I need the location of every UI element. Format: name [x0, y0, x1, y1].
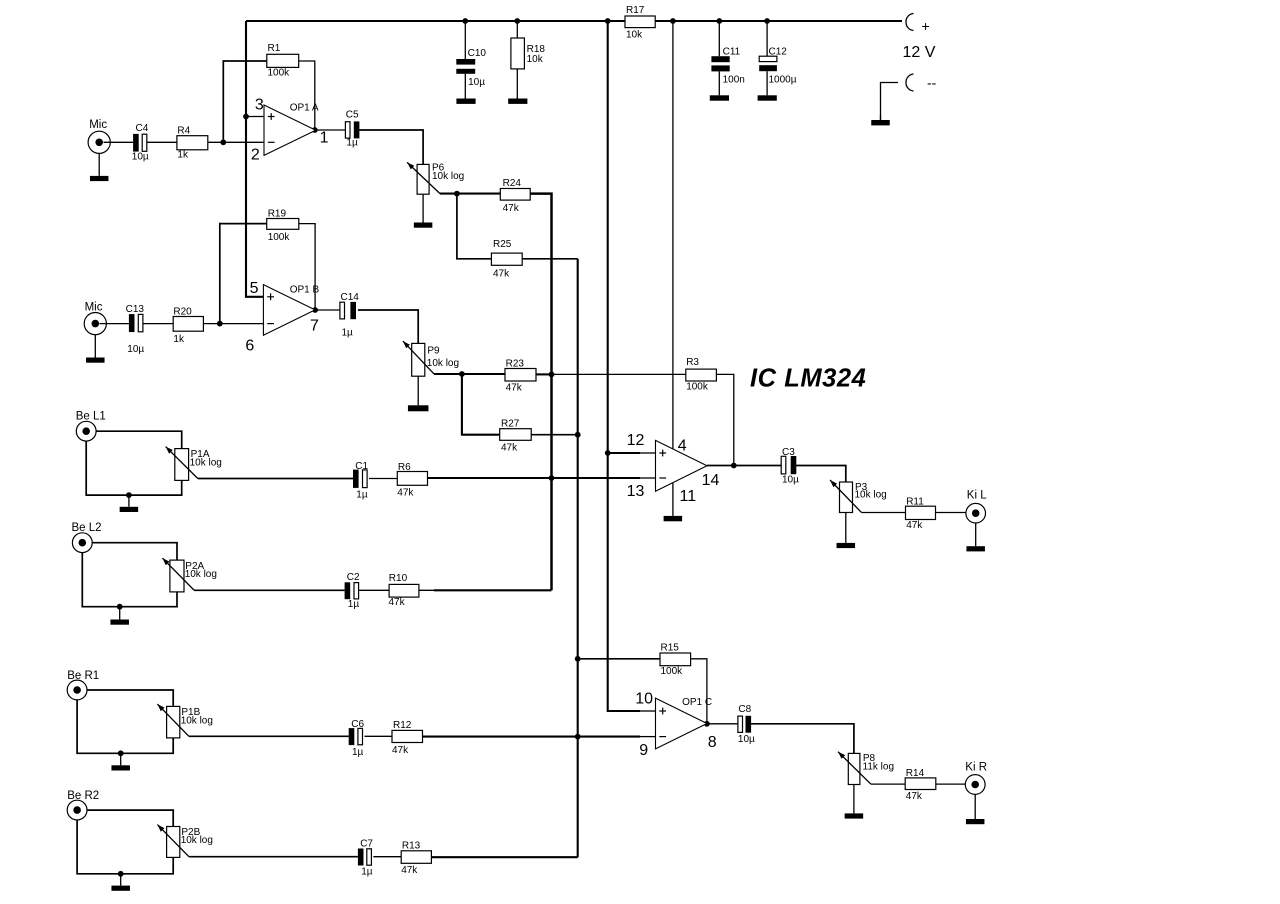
wire OP1 GND pin 11 to ground	[672, 483, 674, 516]
svg-text:C7: C7	[360, 838, 373, 849]
svg-text:R13: R13	[402, 840, 421, 851]
svg-text:C14: C14	[341, 292, 360, 303]
capacitor C2	[345, 572, 360, 610]
wire C8 to P8	[750, 724, 854, 754]
svg-text:R27: R27	[501, 418, 520, 429]
svg-text:12: 12	[627, 432, 645, 449]
wire R18 to ground	[516, 69, 518, 99]
op-amp U1C (OP1 C)	[656, 698, 708, 749]
junction left-mix bus/pin 13 wire	[549, 475, 555, 481]
ground (Be L1 loop)	[120, 495, 138, 512]
wire OP1 A output to C5	[316, 129, 346, 131]
connector Be R2	[67, 790, 99, 820]
wire C13 to R20	[143, 323, 173, 325]
resistor R4	[177, 125, 208, 160]
junction Be L2 loop/ground	[117, 604, 123, 610]
ground (Mic 1)	[90, 153, 109, 181]
svg-text:1µ: 1µ	[346, 138, 358, 149]
svg-text:1k: 1k	[173, 334, 185, 345]
ground (R18)	[508, 99, 527, 104]
wire pin 12 (+) of OP1 D	[608, 452, 640, 454]
ground (P6)	[414, 194, 433, 228]
junction P6 wiper / R24 / R25	[454, 191, 460, 197]
svg-text:47k: 47k	[401, 865, 418, 876]
svg-text:10k: 10k	[626, 29, 643, 40]
wire C5 to P6	[359, 130, 423, 164]
svg-text:C13: C13	[126, 304, 145, 315]
wire R12 to pin 9 (-) of OP1 C	[423, 736, 641, 738]
wire P6 wiper to summing junction	[440, 193, 457, 195]
wire OP1 D output to C3	[707, 465, 781, 467]
wire junction to R24	[457, 193, 500, 195]
potentiometer P3	[830, 480, 887, 513]
wire R14 to Ki R	[936, 783, 966, 785]
potentiometer P1A	[166, 447, 222, 481]
svg-text:12 V: 12 V	[903, 44, 936, 61]
junction R23/left-mix bus	[549, 372, 555, 378]
capacitor C5	[345, 110, 359, 149]
wire P8 wiper to R14	[871, 783, 905, 785]
svg-text:R14: R14	[906, 768, 925, 779]
wire R3 to OP1 D output	[716, 374, 733, 465]
svg-text:C10: C10	[468, 48, 487, 59]
wire C10 to ground	[464, 74, 466, 99]
junction OP1 C output/R15	[704, 721, 710, 727]
wire +12V/Vref top rail (left of R17)	[246, 20, 625, 22]
wire +12V top rail (right of R17)	[655, 20, 902, 22]
wire Be R2 to P2B top	[87, 810, 173, 826]
svg-text:10µ: 10µ	[468, 77, 485, 88]
resistor R6	[397, 462, 427, 498]
resistor R27	[500, 418, 532, 453]
wire R11 to Ki L	[936, 512, 967, 514]
connector 12V - terminal	[906, 74, 937, 91]
junction rail/R18	[514, 18, 520, 24]
wire P9 wiper to summing junction	[434, 373, 462, 375]
junction rail/C11	[716, 18, 722, 24]
svg-text:47k: 47k	[389, 597, 406, 608]
ground (supply minus)	[871, 115, 890, 125]
wire R10 to left-mix bus	[419, 589, 435, 591]
ground (P8)	[845, 785, 864, 819]
svg-text:10k log: 10k log	[181, 835, 213, 846]
svg-text:6: 6	[245, 338, 254, 355]
wire C4 to R4	[147, 141, 177, 143]
resistor R24	[500, 178, 530, 214]
wire C6 to R12	[365, 735, 393, 737]
wire V+ line (rail down to OP1 pin 4)	[672, 21, 674, 449]
svg-text:2: 2	[251, 146, 260, 163]
svg-text:R15: R15	[661, 643, 680, 654]
svg-text:11: 11	[680, 488, 697, 505]
svg-text:47k: 47k	[392, 745, 409, 756]
wire P1B wiper to C6	[189, 735, 349, 737]
wire OP1 B output to C14	[315, 309, 340, 311]
svg-text:C6: C6	[351, 719, 364, 730]
resistor R19	[267, 208, 299, 243]
wire junction down to R27	[462, 374, 500, 435]
wire Be L2 ground side loop	[82, 553, 177, 607]
wire R19 to OP1 B output	[299, 224, 315, 310]
junction rail/V+ line	[670, 18, 676, 24]
capacitor C1	[353, 461, 369, 500]
svg-text:Be L1: Be L1	[76, 410, 106, 422]
capacitor C7	[358, 838, 374, 877]
wire Mic 2 to C13	[100, 323, 129, 325]
resistor R3	[686, 357, 717, 393]
junction right-mix bus/R15	[575, 656, 581, 662]
junction Vref bus/pin 12 wire	[605, 450, 611, 456]
wire Mic to C4	[104, 141, 134, 143]
svg-text:R12: R12	[393, 720, 412, 731]
svg-text:8: 8	[708, 734, 717, 751]
capacitor C3	[781, 447, 799, 486]
wire pin 3 (+) of OP1 A	[246, 116, 264, 118]
svg-text:C4: C4	[136, 123, 149, 134]
svg-text:1000µ: 1000µ	[769, 75, 797, 86]
junction rail/Vref bus	[605, 18, 611, 24]
wire P2B wiper to C7	[189, 856, 358, 858]
svg-text:10µ: 10µ	[738, 734, 755, 745]
ground (C10)	[456, 99, 475, 104]
wire C11 to ground	[718, 71, 720, 95]
capacitor C6	[349, 719, 365, 758]
wire feedback riser to R1	[223, 61, 266, 142]
svg-text:13: 13	[627, 483, 645, 500]
capacitor C14	[340, 292, 359, 338]
svg-text:10k log: 10k log	[181, 715, 213, 726]
wire left-mix bus (R23 down to R10)	[550, 375, 553, 591]
resistor R14	[905, 768, 936, 802]
potentiometer P9	[403, 341, 459, 376]
svg-text:1k: 1k	[177, 150, 189, 161]
junction Vref/pin 3	[243, 114, 249, 120]
connector Ki L	[966, 490, 987, 524]
svg-text:R20: R20	[173, 306, 192, 317]
svg-text:11k log: 11k log	[863, 762, 895, 773]
wire Vref bus left (rail down to OP1 pin 5)	[246, 21, 263, 297]
svg-text:10k: 10k	[527, 54, 544, 65]
svg-text:10µ: 10µ	[132, 152, 149, 163]
ground (Mic 2)	[86, 334, 105, 362]
connector Be R1	[67, 670, 99, 700]
connector Mic 2	[84, 301, 106, 334]
wire Be L1 to P1A top	[96, 431, 182, 448]
svg-text:47k: 47k	[506, 383, 523, 394]
op-amp U1D (OP1 D)	[656, 440, 708, 491]
connector Mic 1	[88, 119, 110, 153]
svg-text:Be R2: Be R2	[67, 790, 99, 802]
svg-text:100k: 100k	[268, 68, 291, 79]
resistor R23	[505, 358, 536, 393]
potentiometer P8	[838, 752, 894, 785]
svg-text:R25: R25	[493, 239, 512, 250]
wire rail to C10	[464, 21, 466, 59]
connector 12V + terminal	[906, 14, 930, 35]
potentiometer P6	[407, 162, 464, 194]
ground (Be L2 loop)	[110, 607, 129, 625]
wire - terminal to ground	[881, 83, 899, 121]
resistor R15	[660, 643, 691, 677]
junction OP1 B output	[312, 307, 318, 313]
wire Be L2 to P2A top	[92, 543, 177, 560]
capacitor C13	[126, 304, 145, 355]
svg-text:100k: 100k	[268, 232, 291, 243]
svg-text:C11: C11	[723, 46, 741, 57]
svg-text:100n: 100n	[723, 75, 745, 86]
svg-text:R3: R3	[686, 357, 699, 368]
resistor R20	[173, 306, 203, 344]
svg-text:R19: R19	[268, 208, 287, 219]
svg-text:C2: C2	[347, 572, 360, 583]
svg-text:10k log: 10k log	[185, 569, 217, 580]
svg-text:IC LM324: IC LM324	[750, 364, 866, 392]
ground (Be R1 loop)	[111, 753, 130, 770]
svg-text:Ki R: Ki R	[965, 761, 987, 773]
ground (Ki L)	[966, 523, 985, 551]
svg-text:R17: R17	[626, 5, 645, 16]
connector Be L2	[72, 522, 102, 553]
ground (P3)	[837, 513, 856, 549]
wire R24 to left-mix bus	[530, 194, 551, 375]
junction P9 wiper / R23 / R27	[459, 371, 465, 377]
svg-text:R6: R6	[398, 462, 411, 473]
wire rail to C11	[718, 21, 720, 56]
wire R13 to right-mix bus	[431, 856, 577, 858]
svg-text:47k: 47k	[493, 269, 510, 280]
wire C7 to R13	[373, 856, 401, 858]
wire right-mix bus to R15	[578, 658, 660, 660]
connector Be L1	[76, 410, 106, 441]
junction OP1 D output/R3	[731, 463, 737, 469]
wire R15 to OP1 C output	[691, 659, 707, 724]
wire OP1 C output to C8	[707, 723, 738, 725]
ground (P9)	[408, 376, 429, 411]
capacitor C12 (electrolytic)	[759, 46, 797, 85]
svg-text:10k log: 10k log	[427, 358, 459, 369]
svg-text:10k log: 10k log	[855, 490, 887, 501]
connector Ki R	[965, 761, 987, 794]
svg-text:C12: C12	[769, 46, 788, 57]
svg-text:OP1 B: OP1 B	[290, 285, 320, 296]
svg-text:3: 3	[255, 97, 264, 114]
svg-text:R11: R11	[906, 497, 924, 508]
resistor R13	[401, 840, 431, 876]
resistor R1	[267, 43, 299, 79]
svg-text:R24: R24	[503, 178, 522, 189]
junction R27/right-mix bus	[575, 432, 581, 438]
ground (C11)	[710, 95, 729, 100]
capacitor C11	[711, 46, 744, 85]
svg-text:10k log: 10k log	[432, 171, 464, 182]
svg-text:C1: C1	[355, 461, 368, 472]
resistor R18 (vertical)	[511, 38, 545, 69]
wire feedback riser to R19	[220, 224, 267, 324]
op-amp U1B (OP1 B)	[263, 285, 315, 336]
svg-text:1µ: 1µ	[361, 867, 373, 878]
svg-text:R23: R23	[506, 358, 525, 369]
capacitor C8	[738, 704, 755, 745]
svg-text:Be R1: Be R1	[67, 670, 99, 682]
ground (Be R2 loop)	[111, 874, 130, 891]
svg-text:1µ: 1µ	[342, 327, 354, 338]
svg-text:100k: 100k	[661, 666, 684, 677]
resistor R11	[906, 497, 936, 531]
svg-text:+: +	[922, 18, 930, 34]
svg-text:1µ: 1µ	[356, 490, 368, 501]
svg-text:Mic: Mic	[89, 119, 107, 131]
junction Be L1 loop/ground	[126, 492, 132, 498]
potentiometer P1B	[157, 704, 213, 738]
wire rail to C12	[766, 21, 768, 56]
svg-text:14: 14	[702, 472, 720, 489]
svg-text:1: 1	[320, 130, 329, 147]
wire Be R2 ground side loop	[77, 820, 173, 874]
junction rail/C12	[764, 18, 770, 24]
wire P3 wiper to R11	[861, 512, 905, 514]
potentiometer P2A	[162, 558, 217, 592]
wire C1 to R6	[369, 478, 397, 480]
wire R23 to left-mix bus	[536, 373, 552, 375]
svg-text:1µ: 1µ	[348, 599, 360, 610]
wire R20 to pin 6 (-) of OP1 B	[203, 323, 263, 325]
svg-text:P9: P9	[427, 345, 440, 356]
svg-text:10: 10	[635, 690, 653, 707]
wire right-mix bus (R25 down to R13)	[577, 259, 579, 857]
junction rail/C10	[462, 18, 468, 24]
ground (C12)	[758, 95, 777, 100]
svg-text:7: 7	[310, 318, 319, 335]
svg-text:10k log: 10k log	[190, 457, 222, 468]
junction Be R1 loop/ground	[118, 750, 124, 756]
svg-text:C3: C3	[782, 447, 795, 458]
svg-text:R10: R10	[389, 573, 408, 584]
svg-text:5: 5	[250, 280, 259, 297]
wire Vref bus (rail down to OP1 pin 10)	[608, 21, 640, 711]
resistor R10	[389, 573, 419, 608]
svg-text:47k: 47k	[501, 443, 518, 454]
op-amp U1A (OP1 A)	[264, 105, 316, 155]
wire R6 to pin 13 (-) of OP1 D	[428, 477, 641, 479]
wire Be R1 to P1B top	[87, 690, 173, 706]
svg-text:47k: 47k	[503, 203, 520, 214]
svg-text:Mic: Mic	[85, 301, 103, 313]
capacitor C10	[456, 48, 486, 88]
wire Be L1 ground side loop	[86, 441, 182, 495]
svg-text:47k: 47k	[397, 487, 414, 498]
svg-text:10µ: 10µ	[782, 475, 799, 486]
ground (Ki R)	[966, 794, 985, 824]
junction OP1 A output	[312, 127, 318, 133]
svg-text:10µ: 10µ	[127, 344, 144, 355]
svg-text:Be L2: Be L2	[72, 522, 102, 534]
wire R1 to OP1 A output	[299, 61, 315, 130]
ground (OP1 pin 11)	[664, 516, 683, 521]
junction OP1 B inverting input node	[217, 321, 223, 327]
svg-text:4: 4	[678, 437, 687, 454]
svg-text:47k: 47k	[906, 791, 923, 802]
svg-text:OP1 A: OP1 A	[290, 103, 319, 114]
wire R25 to right-mix bus	[522, 258, 578, 260]
svg-text:R4: R4	[177, 125, 190, 136]
wire left-mix node to R3	[552, 373, 686, 375]
junction right-mix bus/pin 9 wire	[575, 734, 581, 740]
wire C3 to P3	[796, 466, 846, 483]
capacitor C4	[132, 123, 149, 163]
wire R4 to pin 2 (-) of OP1 A	[208, 141, 264, 143]
wire rail to R18	[516, 21, 518, 38]
potentiometer P2B	[157, 825, 213, 858]
svg-text:C8: C8	[738, 704, 751, 715]
wire P2A wiper to C2	[194, 589, 345, 591]
junction Be R2 loop/ground	[118, 871, 124, 877]
wire C14 to P9	[358, 310, 418, 343]
svg-text:C5: C5	[346, 110, 359, 121]
svg-text:Ki L: Ki L	[967, 490, 987, 502]
resistor R17	[625, 5, 655, 40]
svg-text:--: --	[927, 75, 937, 91]
wire P1A wiper to C1	[198, 478, 353, 480]
junction OP1 A inverting input node	[220, 139, 226, 145]
wire R27 to right-mix bus	[531, 434, 578, 436]
resistor R12	[392, 720, 423, 756]
svg-text:1µ: 1µ	[352, 747, 364, 758]
wire Be R1 ground side loop	[77, 700, 173, 753]
wire junction to R23	[462, 373, 505, 375]
resistor R25	[491, 239, 522, 280]
wire junction down to R25	[457, 194, 492, 259]
svg-text:100k: 100k	[686, 382, 709, 393]
svg-text:47k: 47k	[906, 520, 923, 531]
wire C12 to ground	[766, 71, 768, 95]
svg-text:R1: R1	[268, 43, 281, 54]
wire C2 to R10	[359, 589, 389, 591]
svg-text:OP1 C: OP1 C	[682, 697, 712, 708]
svg-text:9: 9	[639, 742, 648, 759]
